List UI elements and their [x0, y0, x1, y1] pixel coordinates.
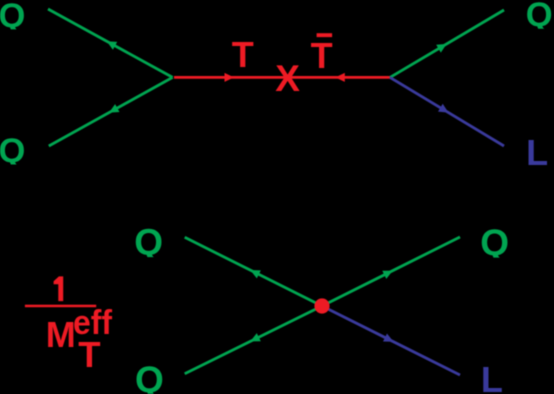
arrowhead on bottom-left Q line (points down-left) [109, 104, 120, 113]
svg-text:Q: Q [135, 359, 164, 394]
svg-text:M: M [46, 314, 76, 355]
arrowhead on top-right Q line (points up-right) [436, 44, 447, 53]
wire: T propagator (red, horizontal) [174, 76, 390, 79]
svg-text:L: L [526, 132, 548, 173]
arrowhead upper-right (points up-right) [382, 271, 393, 279]
arrowhead lower-right (points down-right) [383, 334, 394, 342]
wire: outgoing lepton line L (blue, bottom-right) [390, 77, 504, 146]
svg-text:Q: Q [0, 132, 25, 170]
node: effective contact vertex (red dot) [314, 298, 329, 313]
arrowhead on Tbar side (points left toward X) [335, 73, 345, 82]
coupling factor: numerator 1 [54, 276, 64, 301]
wire: lepton line L (blue, lower-right, contact diagram) [322, 306, 460, 375]
wire: quark line Q (upper-left, contact diagram) [185, 237, 322, 306]
svg-text:X: X [275, 58, 300, 99]
label Q top-right [526, 0, 553, 34]
svg-text:Q: Q [480, 222, 509, 263]
arrowhead upper-left (points up-left) [250, 270, 260, 278]
arrowhead on L line (points down-right) [438, 104, 449, 113]
label Q lower-left (contact) [135, 359, 164, 394]
wire: incoming quark line Q (top-left) [48, 9, 173, 77]
label Q top-left [0, 0, 25, 35]
svg-text:T: T [311, 35, 333, 76]
wire: quark line Q (upper-right, contact diagram) [322, 237, 460, 306]
svg-text:T: T [78, 334, 100, 375]
svg-text:Q: Q [134, 222, 163, 263]
wire: incoming quark line Q (bottom-left) [49, 77, 173, 146]
overbar of Tbar [317, 33, 333, 37]
svg-text:T: T [232, 34, 254, 75]
label Q bottom-left [0, 132, 25, 170]
arrowhead lower-left (points down-left) [250, 333, 260, 341]
arrowhead on T side (points right toward X) [225, 73, 235, 82]
wire: quark line Q (lower-left, contact diagram) [185, 306, 322, 374]
svg-text:L: L [481, 359, 503, 394]
label Q upper-right (contact) [480, 222, 509, 263]
wire: outgoing quark line Q (top-right) [390, 10, 504, 77]
fraction bar [25, 305, 96, 308]
label Q upper-left (contact) [134, 222, 163, 263]
arrowhead on top-left Q line (points up-left) [107, 41, 118, 50]
